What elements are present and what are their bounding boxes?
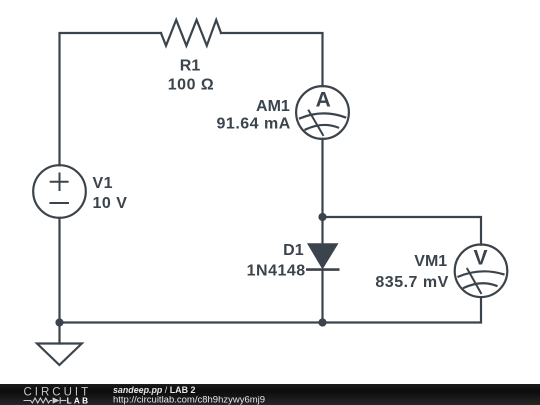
voltage source V1 body [33, 165, 86, 218]
svg-text:AM1: AM1 [256, 98, 290, 115]
diode D1 triangle [308, 244, 337, 268]
wire top rail left (V1 top to R1 left lead) [60, 33, 162, 165]
svg-text:http://circuitlab.com/c8h9hzyw: http://circuitlab.com/c8h9hzywy6mj9 [113, 395, 265, 405]
ammeter AM1 scale lower arc [306, 125, 339, 130]
svg-text:D1: D1 [283, 242, 304, 259]
wire V1 bottom to ground node [58, 218, 60, 323]
resistor R1 [161, 20, 221, 46]
wire ground node to ground symbol [58, 323, 60, 344]
ammeter AM1 body [296, 86, 349, 139]
CircuitLab logo diode glyph [53, 397, 60, 403]
svg-text:LAB: LAB [67, 396, 91, 405]
ground node junction dot [55, 318, 63, 326]
wire D1 cathode to bottom rail [321, 270, 323, 323]
svg-text:V1: V1 [93, 175, 114, 192]
diode D1 cathode bar [306, 268, 340, 271]
svg-text:1N4148: 1N4148 [247, 263, 306, 280]
wire AM1 bottom to node A [321, 139, 323, 217]
V1 plus sign [51, 174, 68, 191]
voltmeter VM1 scale upper arc [459, 271, 504, 276]
bottom rail wire [60, 321, 323, 323]
svg-text:10 V: 10 V [93, 195, 128, 212]
ground symbol [37, 344, 82, 366]
svg-text:R1: R1 [180, 57, 201, 74]
ammeter AM1 scale upper arc [300, 113, 345, 118]
bottom rail junction dot [318, 318, 326, 326]
wire node A to VM1 top [323, 217, 482, 245]
svg-text:100 Ω: 100 Ω [168, 77, 214, 94]
voltmeter VM1 body [455, 244, 508, 297]
wire node A to D1 anode [321, 217, 323, 244]
wire top rail right (R1 right lead to AM1 top) [221, 33, 323, 86]
node A junction dot [318, 213, 326, 221]
voltmeter VM1 scale lower arc [464, 283, 497, 288]
svg-text:VM1: VM1 [414, 253, 447, 270]
svg-text:V: V [473, 247, 488, 270]
CircuitLab logo wire and resistor squiggle [24, 397, 67, 403]
svg-text:835.7 mV: 835.7 mV [375, 274, 448, 291]
svg-text:91.64 mA: 91.64 mA [217, 116, 291, 133]
V1 minus sign [50, 202, 68, 204]
voltmeter VM1 needle [467, 269, 481, 293]
wire VM1 bottom to bottom rail [323, 297, 482, 322]
ammeter AM1 needle [309, 111, 323, 136]
svg-text:A: A [316, 89, 332, 112]
